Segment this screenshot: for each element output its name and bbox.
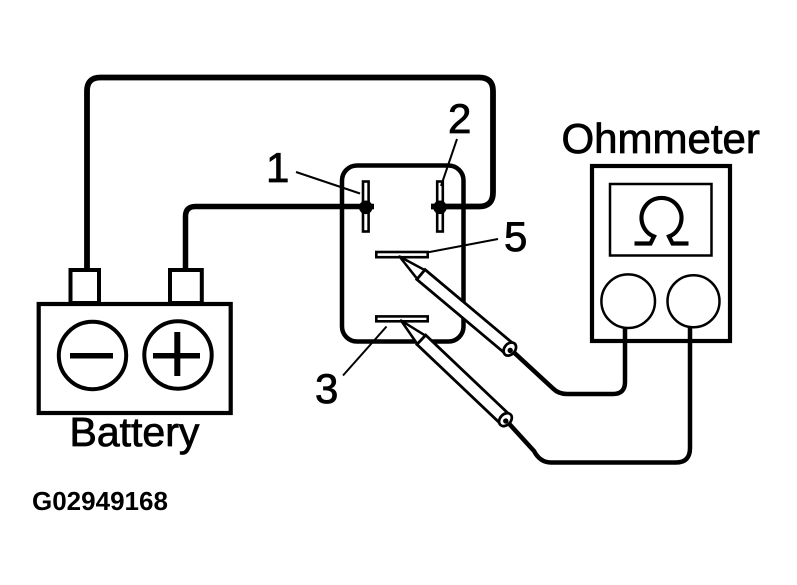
- battery negative cap circle: [59, 322, 126, 389]
- svg-text:1: 1: [266, 144, 289, 191]
- svg-text:Battery: Battery: [70, 409, 200, 455]
- battery plus sign: [153, 353, 200, 359]
- probe lead wire to ohmmeter right jack: [503, 322, 690, 463]
- wire battery positive to relay terminal 1: [186, 207, 375, 271]
- ohmmeter display window: [610, 184, 712, 256]
- relay body: [342, 166, 464, 342]
- svg-text:3: 3: [315, 365, 338, 412]
- battery positive post: [170, 270, 202, 303]
- wire battery negative to relay terminal 2: [87, 78, 493, 271]
- relay terminal 2 (pin bar): [437, 182, 443, 232]
- leader line for label 1: [296, 172, 360, 194]
- svg-text:G02949168: G02949168: [32, 486, 168, 516]
- leader line for label 2: [441, 139, 457, 186]
- ohm symbol: [635, 198, 689, 244]
- battery body: [39, 304, 231, 413]
- ohmmeter left jack: [601, 274, 655, 328]
- junction dot terminal 1: [359, 201, 373, 215]
- test probe on terminal 5: [395, 251, 519, 358]
- ohmmeter body: [592, 166, 730, 341]
- probe lead wire to ohmmeter left jack: [507, 322, 625, 394]
- relay terminal 5 (pin bar): [376, 252, 427, 257]
- test probe on terminal 3: [396, 315, 514, 428]
- battery minus sign: [70, 353, 113, 359]
- ohmmeter right jack: [668, 275, 720, 327]
- svg-text:Ohmmeter: Ohmmeter: [562, 115, 760, 162]
- battery positive cap circle: [144, 321, 211, 388]
- svg-text:2: 2: [448, 95, 471, 142]
- battery negative post: [71, 270, 100, 303]
- relay terminal 3 (pin bar): [376, 316, 427, 321]
- leader line for label 5: [427, 239, 498, 253]
- junction dot terminal 2: [433, 201, 447, 215]
- relay terminal 1 (pin bar): [363, 182, 369, 232]
- leader line for label 3: [343, 327, 387, 376]
- svg-text:5: 5: [504, 213, 527, 260]
